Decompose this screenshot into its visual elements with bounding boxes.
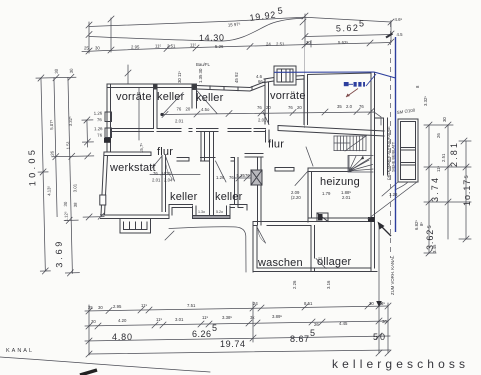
svg-text:(2.20: (2.20 <box>291 195 301 200</box>
svg-text:2.01: 2.01 <box>342 195 351 200</box>
svg-text:30: 30 <box>98 305 103 310</box>
svg-text:35: 35 <box>337 104 342 109</box>
svg-text:25: 25 <box>88 305 93 310</box>
svg-text:8.67: 8.67 <box>290 334 309 344</box>
svg-text:3.16: 3.16 <box>326 280 331 289</box>
svg-text:2.51: 2.51 <box>276 42 285 47</box>
svg-text:ZUM VORH. KANAL: ZUM VORH. KANAL <box>390 255 395 295</box>
svg-text:vorräte: vorräte <box>270 90 306 102</box>
svg-text:30 11⁵: 30 11⁵ <box>177 71 182 83</box>
svg-text:DRZKAMMER AUFBAUHAUSE: DRZKAMMER AUFBAUHAUSE <box>387 126 391 180</box>
svg-text:20: 20 <box>186 107 191 112</box>
svg-text:24: 24 <box>253 301 258 306</box>
svg-text:26: 26 <box>50 150 55 156</box>
svg-text:20: 20 <box>266 105 271 110</box>
svg-text:6.26: 6.26 <box>192 329 211 339</box>
svg-text:14.30: 14.30 <box>199 33 224 43</box>
svg-text:50: 50 <box>373 332 385 342</box>
svg-text:1.26: 1.26 <box>94 126 103 131</box>
svg-text:30: 30 <box>369 301 374 306</box>
svg-text:76: 76 <box>359 104 364 109</box>
svg-text:keller: keller <box>157 91 185 103</box>
svg-text:vorräte: vorräte <box>116 91 152 103</box>
svg-text:7.51: 7.51 <box>187 303 196 308</box>
svg-text:5.2o: 5.2o <box>216 210 223 214</box>
svg-text:76: 76 <box>153 171 158 176</box>
svg-text:1.51: 1.51 <box>65 140 70 149</box>
svg-text:26: 26 <box>436 133 441 138</box>
svg-text:5.26: 5.26 <box>215 44 224 49</box>
svg-text:30: 30 <box>69 68 74 74</box>
svg-text:20: 20 <box>297 105 302 110</box>
svg-text:1o.17⁵: 1o.17⁵ <box>462 175 472 206</box>
svg-text:3.89⁵: 3.89⁵ <box>272 314 282 319</box>
svg-text:5.62: 5.62 <box>336 23 358 34</box>
svg-text:30: 30 <box>95 46 100 51</box>
svg-text:4.13⁵: 4.13⁵ <box>46 185 51 195</box>
svg-text:5: 5 <box>359 19 364 29</box>
svg-text:keller: keller <box>170 191 198 203</box>
svg-text:3.45: 3.45 <box>432 244 437 253</box>
svg-text:3.01: 3.01 <box>72 183 77 192</box>
svg-text:3.01: 3.01 <box>175 317 184 322</box>
svg-text:15,7⁵: 15,7⁵ <box>139 143 144 153</box>
svg-text:15 97⁵: 15 97⁵ <box>228 22 241 28</box>
svg-text:25: 25 <box>84 46 89 51</box>
svg-text:4.20: 4.20 <box>118 318 127 323</box>
svg-text:11⁵: 11⁵ <box>202 315 208 320</box>
svg-text:keller: keller <box>215 191 243 203</box>
svg-text:Bau/FL: Bau/FL <box>196 62 210 67</box>
svg-text:30: 30 <box>306 40 311 45</box>
svg-text:76: 76 <box>257 105 262 110</box>
svg-text:2.01: 2.01 <box>175 119 184 124</box>
svg-text:4.5o: 4.5o <box>201 107 210 112</box>
svg-text:76: 76 <box>97 133 103 138</box>
svg-text:2.26: 2.26 <box>292 280 297 289</box>
svg-text:38: 38 <box>73 202 78 208</box>
svg-text:30: 30 <box>63 201 68 207</box>
svg-text:heizung: heizung <box>320 176 360 188</box>
svg-text:26: 26 <box>314 322 319 327</box>
svg-text:3.38⁵: 3.38⁵ <box>222 315 232 320</box>
svg-text:werkstatt: werkstatt <box>109 162 156 174</box>
svg-text:8.51: 8.51 <box>304 301 313 306</box>
svg-text:2.95: 2.95 <box>113 304 122 309</box>
svg-text:1.79: 1.79 <box>322 191 331 196</box>
svg-text:2.51: 2.51 <box>167 44 176 49</box>
svg-text:öllager: öllager <box>317 256 352 268</box>
svg-text:flur: flur <box>157 146 173 158</box>
svg-text:4.45: 4.45 <box>339 321 348 326</box>
svg-text:76: 76 <box>288 105 293 110</box>
svg-text:76: 76 <box>97 117 103 122</box>
svg-text:2.95: 2.95 <box>131 45 140 50</box>
svg-text:3.74: 3.74 <box>430 178 440 202</box>
svg-text:19.74: 19.74 <box>220 339 245 349</box>
svg-text:11⁵: 11⁵ <box>436 166 441 172</box>
svg-text:3.32⁵: 3.32⁵ <box>423 96 428 106</box>
svg-text:4.5: 4.5 <box>397 32 404 37</box>
svg-text:2.0: 2.0 <box>346 104 353 109</box>
svg-text:1.3o: 1.3o <box>198 210 205 214</box>
svg-text:76: 76 <box>245 173 250 178</box>
svg-text:1.26: 1.26 <box>94 111 103 116</box>
svg-text:30: 30 <box>382 319 387 324</box>
svg-text:11⁵: 11⁵ <box>155 44 161 49</box>
svg-text:76: 76 <box>229 175 234 180</box>
svg-text:2.01: 2.01 <box>152 178 161 183</box>
svg-text:6⁵: 6⁵ <box>381 301 385 306</box>
svg-text:8⁵: 8⁵ <box>419 222 424 226</box>
svg-text:5 62⁵: 5 62⁵ <box>338 40 348 45</box>
svg-text:76: 76 <box>177 107 182 112</box>
svg-text:2.04: 2.04 <box>164 178 173 183</box>
svg-text:66: 66 <box>258 79 263 84</box>
svg-text:30: 30 <box>442 117 447 122</box>
svg-text:30: 30 <box>91 319 96 324</box>
svg-text:24: 24 <box>266 42 271 47</box>
svg-text:2.51: 2.51 <box>441 153 446 162</box>
svg-text:4.80: 4.80 <box>112 332 132 342</box>
svg-text:1.12⁵: 1.12⁵ <box>63 211 68 221</box>
svg-text:KANAL: KANAL <box>6 348 34 354</box>
svg-text:SIEHE BEIBLATT: SIEHE BEIBLATT <box>392 141 396 172</box>
svg-text:4.6⁵: 4.6⁵ <box>395 17 403 22</box>
svg-text:1.26: 1.26 <box>216 175 225 180</box>
svg-text:5: 5 <box>212 323 217 333</box>
svg-text:1.35 30: 1.35 30 <box>198 68 203 83</box>
svg-text:3.69: 3.69 <box>54 242 65 268</box>
svg-text:2.81: 2.81 <box>449 143 459 167</box>
svg-text:11⁵: 11⁵ <box>156 317 162 322</box>
svg-text:2.01: 2.01 <box>258 118 267 123</box>
svg-text:30: 30 <box>54 68 59 74</box>
svg-text:waschen: waschen <box>257 257 303 269</box>
svg-text:76: 76 <box>166 171 171 176</box>
svg-text:11⁵: 11⁵ <box>141 303 147 308</box>
svg-text:3.32⁵: 3.32⁵ <box>68 116 73 126</box>
svg-text:keller: keller <box>196 92 224 104</box>
svg-text:45 92: 45 92 <box>234 72 239 83</box>
svg-text:flur: flur <box>268 139 284 151</box>
svg-text:5: 5 <box>310 328 315 338</box>
svg-text:5.07⁵: 5.07⁵ <box>49 119 54 129</box>
svg-text:11⁵: 11⁵ <box>190 43 196 48</box>
svg-text:1.28: 1.28 <box>389 192 398 197</box>
